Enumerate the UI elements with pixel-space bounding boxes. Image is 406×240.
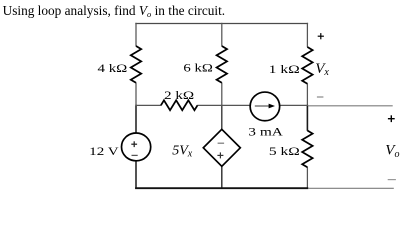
wire middle branch middle xyxy=(221,83,223,106)
svg-text:1 kΩ: 1 kΩ xyxy=(269,62,300,76)
wire middle horizontal segment B xyxy=(197,104,250,106)
svg-text:6 kΩ: 6 kΩ xyxy=(183,61,213,75)
wire middle branch to diamond top xyxy=(221,105,223,130)
plus sign inside diamond xyxy=(217,154,223,156)
plus sign inside 12V xyxy=(131,143,137,145)
minus sign Vx xyxy=(317,96,324,98)
minus sign inside diamond xyxy=(218,142,225,144)
wire top horizontal xyxy=(135,23,308,25)
svg-text:12 V: 12 V xyxy=(89,144,119,158)
current source 3mA circle xyxy=(250,92,280,121)
wire right branch to 5k resistor top xyxy=(306,105,308,131)
wire middle horizontal segment A xyxy=(135,104,161,106)
wire left branch lower xyxy=(135,161,137,189)
wire middle horizontal segment C xyxy=(280,104,308,106)
resistor 2k (horizontal) xyxy=(161,100,198,110)
svg-text:4 kΩ: 4 kΩ xyxy=(98,61,128,75)
wire middle branch lower xyxy=(221,166,223,189)
wire left branch to 12V source top xyxy=(135,105,137,133)
resistor 4k xyxy=(131,46,141,83)
plus sign Vx xyxy=(318,35,324,37)
wire Vo upper lead (gray) xyxy=(308,105,393,107)
wire bottom horizontal xyxy=(135,187,308,189)
voltage source 12V circle xyxy=(122,133,151,161)
wire left branch middle xyxy=(135,83,137,106)
wire right branch middle xyxy=(306,84,308,106)
dependent source 5Vx diamond xyxy=(203,129,240,166)
wire left branch upper xyxy=(135,23,137,46)
resistor 6k xyxy=(217,46,227,83)
minus sign inside 12V xyxy=(132,154,138,156)
wire right branch upper xyxy=(306,23,308,47)
resistor 5k xyxy=(302,131,312,168)
svg-text:2 kΩ: 2 kΩ xyxy=(164,88,194,102)
minus sign Vo port xyxy=(388,179,396,181)
wire right branch lower xyxy=(306,167,308,189)
wire Vo lower lead (gray) xyxy=(308,187,394,189)
svg-text:Using loop analysis, find Vo i: Using loop analysis, find Vo in the circ… xyxy=(3,3,226,19)
svg-text:5 kΩ: 5 kΩ xyxy=(269,144,300,158)
plus sign Vo port xyxy=(388,118,395,120)
svg-text:3 mA: 3 mA xyxy=(248,125,283,139)
wire middle branch upper xyxy=(221,23,223,46)
resistor 1k xyxy=(302,47,312,84)
current source arrow xyxy=(255,105,269,107)
